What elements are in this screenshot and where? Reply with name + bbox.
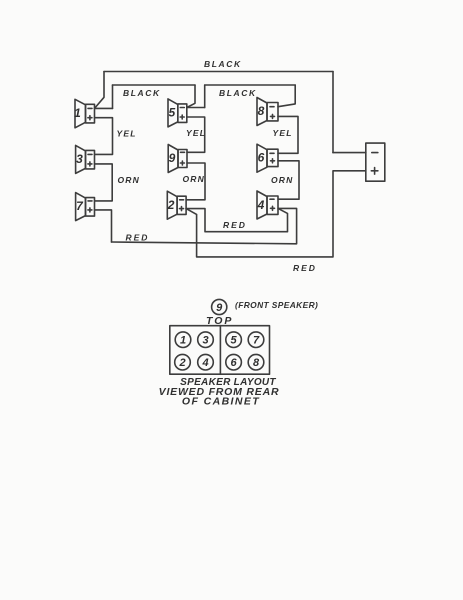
svg-text:2: 2 — [178, 357, 185, 369]
svg-text:8: 8 — [258, 104, 265, 118]
wire: orn link 3+ to 7- — [95, 164, 113, 201]
wire: red link 7+ down — [95, 210, 112, 242]
layout circle 2 — [175, 354, 191, 370]
svg-text:TOP: TOP — [206, 315, 233, 327]
wire: speaker 1 minus riser to outer black — [95, 72, 105, 109]
wire: inner black left riser — [112, 85, 114, 108]
speaker 8 — [257, 98, 278, 126]
layout circle 8 — [248, 354, 264, 370]
wire: outer black top run — [104, 71, 333, 73]
svg-text:6: 6 — [258, 151, 265, 165]
svg-text:1: 1 — [74, 106, 81, 120]
svg-text:9: 9 — [216, 302, 223, 314]
speaker 3 — [76, 145, 95, 173]
layout circle 5 — [226, 332, 242, 348]
layout circle 6 — [226, 354, 242, 370]
layout circle 1 — [175, 332, 191, 348]
wire: inner black left run — [113, 84, 196, 86]
terminal block TB1 — [366, 143, 385, 181]
svg-text:ORN: ORN — [183, 174, 206, 184]
svg-text:YEL: YEL — [186, 128, 206, 138]
svg-text:ORN: ORN — [271, 175, 294, 185]
wire: red tie 2+ to 4+ — [186, 209, 287, 232]
svg-text:7: 7 — [253, 335, 260, 347]
svg-text:ORN: ORN — [118, 175, 141, 185]
speaker 4 — [257, 191, 278, 219]
svg-text:6: 6 — [231, 357, 238, 369]
speaker 7 — [76, 193, 95, 221]
layout circle 7 — [248, 332, 264, 348]
wire: speaker 5 minus stub — [187, 107, 205, 109]
svg-text:5: 5 — [231, 335, 238, 347]
front speaker circle 9 — [212, 299, 227, 314]
svg-text:4: 4 — [257, 198, 265, 212]
cabinet divider — [219, 326, 221, 375]
svg-text:2: 2 — [167, 198, 175, 212]
svg-text:BLACK: BLACK — [123, 88, 161, 98]
speaker 2 — [167, 191, 186, 219]
speaker 6 — [257, 144, 278, 172]
wire: speaker 1 minus stub — [95, 107, 113, 109]
svg-text:4: 4 — [201, 357, 208, 369]
wire: inner black right riser — [204, 85, 206, 108]
svg-text:RED: RED — [293, 263, 317, 273]
svg-text:1: 1 — [180, 335, 186, 347]
svg-text:3: 3 — [202, 335, 208, 347]
svg-text:OF CABINET: OF CABINET — [182, 396, 260, 408]
svg-text:9: 9 — [169, 151, 176, 165]
wire: yel link 5+ to 9- — [187, 117, 205, 152]
svg-text:3: 3 — [76, 152, 83, 166]
wire: red lower run to speaker 4 side — [112, 208, 297, 243]
svg-text:(FRONT SPEAKER): (FRONT SPEAKER) — [235, 300, 318, 310]
wire: orn link 9+ to 2- — [186, 163, 205, 200]
svg-text:BLACK: BLACK — [204, 59, 242, 69]
speaker 1 — [74, 99, 94, 128]
wire: red return 2+ to terminal plus — [186, 171, 366, 257]
layout circle 4 — [198, 354, 214, 370]
wire: outer black right drop — [332, 72, 334, 153]
cabinet outline — [170, 326, 270, 375]
wire: inner black right drop to speaker 8 — [278, 85, 295, 107]
svg-text:5: 5 — [168, 106, 175, 120]
svg-text:YEL: YEL — [117, 129, 137, 139]
speaker 9 — [168, 145, 187, 173]
svg-text:BLACK: BLACK — [219, 88, 257, 98]
wire: yel link 8+ to 6- — [278, 116, 298, 153]
wire: terminal minus lead — [333, 152, 366, 154]
svg-text:RED: RED — [126, 233, 150, 243]
wire: inner black left drop to speaker 5 — [187, 85, 195, 108]
svg-text:YEL: YEL — [273, 128, 293, 138]
svg-text:RED: RED — [223, 220, 247, 230]
speaker 5 — [168, 99, 187, 127]
svg-text:8: 8 — [253, 357, 260, 369]
wire: yel link 1+ to 3- — [95, 118, 113, 155]
wire: inner black right run — [205, 84, 296, 86]
svg-text:7: 7 — [76, 199, 84, 213]
wire: orn link 6+ to 4- — [278, 161, 299, 199]
layout circle 3 — [198, 332, 214, 348]
